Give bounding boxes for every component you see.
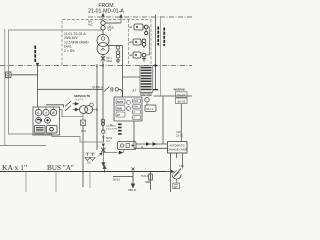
RU-1 box: [145, 105, 156, 112]
LV fuse box: [81, 120, 86, 126]
wire with bend into relay panel: [119, 89, 123, 97]
incomer arrow down: [102, 153, 105, 167]
svg-text:Z = 8%: Z = 8%: [64, 49, 75, 53]
svg-text:21-01: 21-01: [176, 134, 184, 138]
NGR circles: [116, 51, 120, 55]
aux disconnect blades: [65, 101, 71, 111]
feeder arrow: [36, 63, 39, 67]
svg-text:X.2: X.2: [106, 140, 110, 143]
right wire: [154, 95, 193, 97]
svg-text:kVAr: kVAr: [134, 106, 139, 109]
relay circles: [127, 101, 131, 105]
bus drop 2: [55, 172, 57, 193]
link mark: [96, 65, 104, 67]
meter V: [43, 109, 49, 115]
room boundary step: [52, 134, 102, 142]
svg-text:BUS "A": BUS "A": [47, 164, 74, 172]
automatic change-over box: [168, 142, 188, 154]
svg-text:WXR/YW: WXR/YW: [174, 88, 186, 92]
svg-text:50/51: 50/51: [117, 101, 124, 104]
svg-text:21-01-MD-01-A: 21-01-MD-01-A: [88, 9, 124, 15]
svg-text:630A: 630A: [107, 60, 113, 63]
svg-text:QH-02: QH-02: [177, 99, 186, 103]
svg-text:TUR-A: TUR-A: [141, 175, 149, 178]
bus tail arrow: [171, 170, 174, 173]
svg-text:KA x 1": KA x 1": [2, 163, 27, 172]
wires: [143, 26, 144, 28]
svg-text:AUTOMATIC: AUTOMATIC: [169, 143, 185, 147]
ATS feed wires: [136, 143, 168, 145]
svg-text:50N: 50N: [117, 108, 122, 111]
svg-text:NO: NO: [180, 164, 185, 168]
transformer enclosure (dashed): [62, 20, 151, 66]
disconnect blade: [104, 87, 110, 92]
feeder 1 junction diamond: [154, 64, 157, 67]
drawout arrows: [73, 102, 79, 111]
svg-text:P=A: P=A: [81, 129, 86, 133]
transfer tap: [103, 151, 122, 154]
tie arrow: [120, 15, 123, 24]
QU-02 box: [176, 92, 188, 98]
neutral wire: [108, 45, 122, 47]
wire: [11, 74, 38, 76]
PT cluster: [85, 153, 90, 161]
svg-text:NBR-01: NBR-01: [128, 189, 137, 192]
instrument feeder 1: [155, 15, 157, 90]
neutral CT: [116, 46, 120, 50]
changeover arc: [172, 175, 181, 180]
ATS drops: [170, 153, 172, 192]
bus-side arrow up: [103, 165, 106, 171]
changeover blade: [174, 169, 181, 177]
mid vertical to ATS: [162, 96, 164, 144]
svg-text:SERVICE TR: SERVICE TR: [74, 94, 90, 98]
meter wire: [60, 109, 63, 111]
cubicle labels: [130, 27, 134, 57]
relay RB3: [133, 52, 141, 58]
room outlet circle: [102, 130, 105, 133]
instrument feeder 2: [160, 16, 162, 96]
cubicle outlet circle: [145, 98, 149, 102]
transfer device box: [118, 142, 137, 150]
meter W: [50, 109, 56, 115]
CT pair on incomer: [101, 119, 104, 122]
recorder box: [35, 126, 46, 134]
outgoing feeder: [113, 172, 133, 177]
meter kWh disc: [36, 117, 42, 123]
svg-text:4x2: 4x2: [88, 23, 93, 27]
svg-text:3x(1x300): 3x(1x300): [106, 126, 116, 128]
bypass loop: [62, 110, 83, 117]
bus drop 1: [25, 172, 27, 193]
feeder fuse: [150, 172, 152, 191]
boundary dash-dot mid: [0, 65, 192, 67]
relay panel drop: [134, 121, 142, 148]
svg-text:RU-1: RU-1: [147, 107, 154, 111]
aux wire: [46, 105, 64, 108]
wire: [102, 30, 104, 35]
terminal strip block: [140, 66, 153, 93]
tie wire: [105, 22, 121, 24]
indicator box: [47, 126, 58, 134]
svg-text:NC: NC: [87, 161, 91, 165]
main MV riser: [102, 66, 104, 131]
relay panel: [114, 97, 142, 121]
incoming feeder label (rotated): [34, 46, 36, 62]
meter A: [35, 109, 41, 115]
boundary dash-dot upper: [88, 16, 192, 18]
aux circle: [115, 88, 118, 91]
ground: [116, 58, 120, 63]
CT circle 1: [101, 21, 105, 25]
transformer T1 primary: [97, 35, 109, 47]
aux riser: [96, 66, 98, 150]
relay RB1: [134, 24, 143, 30]
svg-text:mm2 XLPE: mm2 XLPE: [106, 128, 118, 130]
metering cubicle: [33, 107, 60, 135]
neutral riser: [122, 46, 124, 98]
aux transformer: [80, 106, 88, 114]
relay cells right: [133, 99, 141, 103]
meter kVArh disc: [45, 117, 51, 123]
junction arrows: [98, 153, 103, 157]
contactor bars: [111, 87, 113, 91]
ground: [142, 57, 146, 61]
branch wire to QU switch: [38, 88, 104, 90]
feeder drop: [37, 66, 39, 107]
transformer T1 secondary: [97, 43, 109, 55]
svg-text:VS: VS: [108, 28, 112, 32]
svg-text:CHANGE-OVER: CHANGE-OVER: [167, 147, 187, 151]
bus junction: [104, 171, 106, 173]
relay RB2: [133, 39, 141, 45]
svg-text:QU-02: QU-02: [177, 93, 186, 97]
aux wire y77: [123, 76, 141, 78]
outgoing feeder breaker: [132, 168, 135, 171]
label: [157, 27, 159, 46]
label: [163, 28, 165, 47]
svg-text:kWh: kWh: [134, 101, 139, 103]
svg-text:A.T: A.T: [133, 90, 137, 93]
PT drop: [89, 172, 91, 189]
LV drop to bus: [82, 126, 84, 188]
incoming arrow: [102, 14, 105, 21]
incomer arrow: [102, 144, 105, 147]
lower boundary line: [0, 145, 46, 147]
breaker X: [102, 55, 104, 66]
incomer connector: [6, 72, 12, 78]
svg-text:NBR: NBR: [145, 181, 150, 184]
relay cells left: [116, 99, 125, 104]
switchgear room boundary: [9, 30, 102, 134]
incomer tick: [102, 135, 105, 143]
ATS input wire 2: [80, 141, 103, 143]
feeder 1 terminal bar: [153, 89, 158, 91]
svg-text:QU(3)-1: QU(3)-1: [92, 85, 103, 89]
svg-text:50/51: 50/51: [113, 178, 120, 182]
motor box: [176, 179, 178, 183]
QH-02 box: [176, 98, 188, 104]
svg-text:2 x 2.5: 2 x 2.5: [76, 99, 83, 101]
drop from boxes: [180, 104, 182, 142]
incomer breaker X: [101, 147, 105, 153]
CT circle 2: [101, 26, 105, 30]
wire: [93, 109, 97, 111]
sheet margin bar: [4, 29, 6, 146]
terminal boxes: [141, 92, 145, 96]
bus A: [0, 171, 166, 173]
